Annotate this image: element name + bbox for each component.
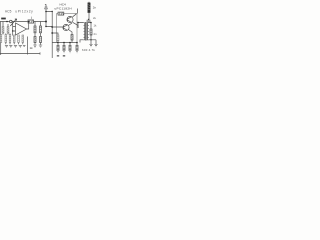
svg-text:HC5: HC5	[5, 9, 12, 13]
svg-text:uPl12x2y: uPl12x2y	[15, 9, 33, 13]
svg-text:1k: 1k	[30, 46, 34, 50]
svg-text:2n: 2n	[93, 6, 97, 10]
svg-text:2n: 2n	[94, 32, 98, 36]
svg-text:uPC1182H: uPC1182H	[55, 7, 72, 11]
svg-text:2u: 2u	[93, 16, 97, 20]
svg-text:600 4.7k: 600 4.7k	[82, 48, 95, 52]
